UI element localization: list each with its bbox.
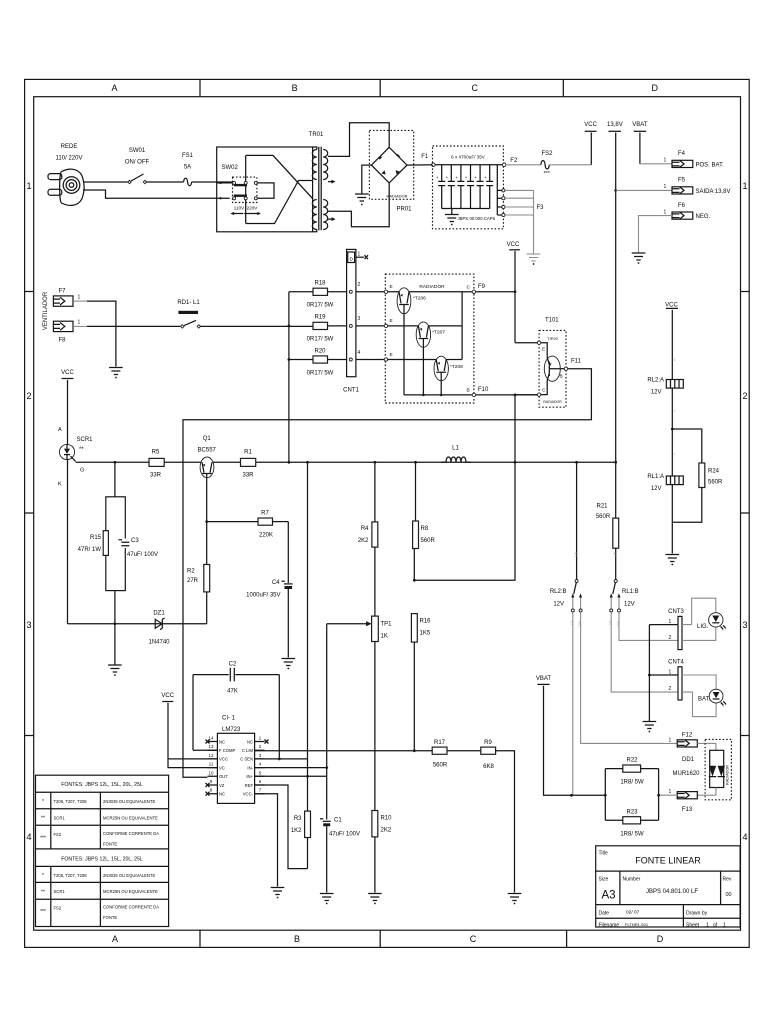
- capacitor bank C x6: [436, 165, 493, 209]
- svg-text:of: of: [713, 923, 718, 929]
- resistor R16 1K5: [411, 614, 417, 643]
- svg-text:1: 1: [78, 295, 81, 301]
- svg-text:FS2: FS2: [54, 906, 62, 911]
- svg-text:R5: R5: [152, 450, 160, 456]
- resistor R20 0R17/5W: [289, 359, 313, 361]
- transistor T208: [434, 356, 463, 395]
- svg-text:SW01: SW01: [129, 148, 146, 154]
- wire bridge left vertex to ground: [362, 165, 372, 194]
- svg-text:PR01: PR01: [396, 207, 412, 213]
- svg-text:NC: NC: [219, 792, 225, 797]
- svg-text:F10: F10: [478, 387, 489, 393]
- secondary tap arrows: [328, 182, 333, 220]
- svg-text:Title: Title: [599, 851, 608, 857]
- resistor R21 560R: [613, 518, 619, 548]
- terminal F12: [669, 733, 698, 748]
- svg-text:C4: C4: [272, 580, 280, 586]
- svg-text:BC557: BC557: [198, 448, 217, 454]
- capacitor bank box JBPS 00.000.CAP6: [433, 146, 504, 229]
- svg-text:1: 1: [674, 452, 676, 456]
- svg-text:RADIADOR: RADIADOR: [726, 765, 730, 785]
- svg-text:1: 1: [664, 210, 667, 216]
- svg-text:11: 11: [209, 762, 214, 767]
- row E3 to T208: [388, 359, 462, 361]
- wire secondary top to bridge: [328, 123, 389, 157]
- svg-text:560R: 560R: [433, 763, 448, 769]
- svg-text:1: 1: [723, 923, 726, 929]
- svg-text:1: 1: [669, 738, 672, 744]
- main rail through cap bank: [435, 164, 502, 166]
- LED LIG loop: [682, 598, 716, 640]
- ground VCC-: [271, 888, 285, 895]
- relay contacts RL1:B: [608, 580, 678, 693]
- svg-text:F7: F7: [58, 289, 66, 295]
- svg-text:SCR1: SCR1: [77, 437, 94, 443]
- svg-text:B: B: [467, 388, 470, 394]
- svg-text:K: K: [58, 482, 62, 488]
- svg-text:1: 1: [664, 158, 667, 164]
- svg-text:T101: T101: [545, 318, 559, 324]
- svg-text:47uF/ 100V: 47uF/ 100V: [127, 552, 158, 558]
- svg-text:+: +: [484, 175, 487, 180]
- svg-text:F6: F6: [678, 203, 686, 209]
- wire F2 to FS2: [506, 164, 541, 166]
- svg-text:TP1: TP1: [381, 622, 393, 628]
- power 13.8V: [609, 130, 621, 132]
- svg-text:*: *: [42, 799, 44, 805]
- svg-text:3: 3: [26, 620, 31, 630]
- capacitor C2 47K: [193, 662, 279, 760]
- svg-text:RL2:A: RL2:A: [647, 378, 664, 384]
- svg-text:T206, T207, T208: T206, T207, T208: [54, 799, 88, 804]
- border column ticks top: [200, 79, 563, 96]
- wire F12 to DD1: [697, 743, 716, 750]
- svg-text:2K2: 2K2: [381, 828, 392, 834]
- svg-text:D: D: [657, 934, 664, 944]
- node F1: [432, 163, 436, 167]
- svg-text:2N3035 OU EQUIVALENTE: 2N3035 OU EQUIVALENTE: [103, 873, 155, 878]
- svg-text:1R8/ 5W: 1R8/ 5W: [620, 832, 644, 838]
- svg-text:R8: R8: [421, 526, 429, 532]
- wire F6 to ground: [639, 216, 673, 253]
- svg-text:R21: R21: [596, 504, 608, 510]
- resistor R19 0R17/5W: [313, 322, 328, 329]
- ground CNT3/CNT4: [648, 625, 650, 722]
- wire RL1:A and R24 to ground: [672, 485, 702, 554]
- svg-text:RD1- L1: RD1- L1: [177, 300, 200, 306]
- svg-text:4: 4: [742, 832, 747, 842]
- svg-text:Size: Size: [599, 877, 609, 883]
- svg-text:Drawn by: Drawn by: [686, 911, 708, 917]
- SW02 outer box: [217, 147, 313, 232]
- resistor R7 220K: [207, 521, 258, 523]
- svg-text:12V: 12V: [651, 390, 662, 396]
- junction 13.8V/F5: [614, 189, 617, 192]
- node F3: [505, 190, 533, 253]
- resistor R17 560R: [432, 747, 447, 754]
- svg-text:VCC: VCC: [219, 757, 228, 762]
- svg-text:FONTES: JBPS 12L, 15L, 20L, 25: FONTES: JBPS 12L, 15L, 20L, 25L: [61, 782, 143, 788]
- svg-text:RL2:B: RL2:B: [550, 589, 567, 595]
- ground R15: [108, 665, 122, 672]
- svg-text:560R: 560R: [421, 538, 436, 544]
- svg-text:VBAT: VBAT: [536, 676, 552, 682]
- svg-text:DD1: DD1: [682, 757, 695, 763]
- svg-text:F1: F1: [421, 154, 429, 160]
- svg-text:1: 1: [706, 923, 709, 929]
- svg-text:FS2: FS2: [541, 151, 553, 157]
- terminal F6 NEG.: [664, 203, 711, 220]
- svg-text:CNT4: CNT4: [668, 660, 684, 666]
- svg-text:VCC-: VCC-: [243, 792, 254, 797]
- transformer TR01: [309, 132, 328, 232]
- svg-text:FS1: FS1: [182, 153, 194, 159]
- terminal F8: [53, 320, 80, 344]
- svg-text:RL1:B: RL1:B: [622, 589, 639, 595]
- transistor Q1 BC557: [198, 436, 217, 565]
- svg-text:1000uF/ 35V: 1000uF/ 35V: [246, 593, 280, 599]
- resistor R18 0R17/5W: [289, 291, 313, 293]
- ground RL1:A: [666, 555, 680, 562]
- relay coil RL2:A 12V: [647, 378, 683, 396]
- svg-text:MUR1620: MUR1620: [672, 771, 700, 777]
- svg-text:OUT: OUT: [219, 774, 228, 779]
- wire pin7 VCC- to ground: [255, 794, 278, 887]
- svg-text:E: E: [542, 347, 545, 353]
- svg-text:1: 1: [669, 789, 672, 795]
- svg-text:RADIADOR: RADIADOR: [543, 400, 562, 404]
- svg-text:VZ: VZ: [219, 783, 225, 788]
- svg-text:**: **: [79, 447, 84, 453]
- svg-text:33R: 33R: [150, 473, 162, 479]
- IC CI-1 LM723: [206, 716, 269, 804]
- svg-text:B: B: [292, 83, 298, 93]
- capacitor C4 1000uF/35V: [246, 522, 292, 658]
- frame inner border: [34, 97, 741, 931]
- LED BAT loop: [682, 675, 716, 717]
- svg-text:FLTNR1.S01: FLTNR1.S01: [625, 922, 649, 927]
- svg-text:R1: R1: [244, 450, 252, 456]
- svg-text:FONTE: FONTE: [103, 842, 117, 847]
- svg-text:VCC: VCC: [507, 242, 520, 248]
- svg-text:R17: R17: [434, 740, 446, 746]
- svg-text:1K2: 1K2: [291, 828, 302, 834]
- svg-text:SAIDA 13,8V: SAIDA 13,8V: [696, 189, 731, 195]
- svg-text:NF1: NF1: [612, 552, 616, 558]
- svg-text:L1: L1: [452, 446, 459, 452]
- zener DZ1 1N4740: [68, 611, 207, 646]
- row E1/collector bus top: [388, 292, 462, 360]
- svg-text:CONFORME CORRENTE DA: CONFORME CORRENTE DA: [103, 905, 159, 910]
- svg-text:MCR25N OU EQUIVALENTE: MCR25N OU EQUIVALENTE: [103, 816, 158, 821]
- svg-text:***: ***: [544, 171, 551, 177]
- svg-text:R20: R20: [314, 349, 326, 355]
- wire pin3 C SEN to rail: [255, 462, 308, 759]
- ground F7/F8: [109, 368, 123, 375]
- svg-text:2: 2: [742, 391, 747, 401]
- wire RL2:A to RL1:A with R24 branch: [671, 388, 673, 476]
- wire VCC to pin12/pin11: [168, 703, 217, 768]
- wire pin2 C LIM row to R17: [255, 750, 433, 752]
- svg-text:JBPS 04.801.00 LF: JBPS 04.801.00 LF: [646, 889, 698, 895]
- svg-text:VCC: VCC: [161, 693, 174, 699]
- svg-text:B: B: [294, 934, 300, 944]
- svg-text:4: 4: [26, 832, 31, 842]
- wire plug to SW01: [83, 181, 130, 183]
- wire R8 bottom loop to rail: [414, 462, 515, 580]
- SW02 voltage selector: [219, 155, 261, 223]
- svg-text:33R: 33R: [242, 473, 254, 479]
- wire F10 row to T101 collector: [516, 394, 537, 396]
- svg-text:Number: Number: [623, 877, 641, 883]
- svg-text:220V: 220V: [247, 206, 259, 211]
- svg-text:220K: 220K: [259, 533, 273, 539]
- svg-text:1: 1: [742, 181, 747, 191]
- svg-text:2N3035 OU EQUIVALENTE: 2N3035 OU EQUIVALENTE: [103, 799, 155, 804]
- svg-text:3: 3: [742, 620, 747, 630]
- svg-text:0R17/ 5W: 0R17/ 5W: [307, 371, 334, 377]
- terminal F4 POS. BAT.: [664, 151, 725, 169]
- svg-text:R3: R3: [294, 816, 302, 822]
- svg-text:D: D: [349, 256, 353, 262]
- svg-text:*T206: *T206: [413, 296, 426, 302]
- svg-text:A: A: [111, 83, 117, 93]
- svg-text:C1: C1: [334, 818, 342, 824]
- wire secondary bottom to bridge: [328, 183, 389, 227]
- wire bridge to F1: [407, 164, 433, 166]
- svg-text:6K8: 6K8: [483, 764, 494, 770]
- svg-text:1N4740: 1N4740: [148, 640, 170, 646]
- svg-text:*T207: *T207: [432, 330, 445, 336]
- svg-text:VENTILADOR: VENTILADOR: [43, 291, 49, 330]
- svg-text:2: 2: [669, 686, 672, 692]
- svg-text:4: 4: [358, 350, 361, 356]
- svg-text:R9: R9: [484, 740, 492, 746]
- wire F13 to R22/R23: [659, 794, 678, 796]
- title block: [596, 846, 740, 929]
- ground at bridge: [355, 194, 369, 201]
- resistor R10 2K2: [372, 811, 378, 837]
- wire plug lower to SW02: [83, 190, 230, 198]
- svg-text:F8: F8: [58, 338, 66, 344]
- svg-text:C: C: [471, 83, 478, 93]
- svg-text:5A: 5A: [184, 165, 191, 171]
- svg-text:12V: 12V: [651, 486, 662, 492]
- svg-text:FS2: FS2: [54, 832, 62, 837]
- svg-text:TIP29: TIP29: [547, 336, 557, 341]
- svg-text:47uF/ 100V: 47uF/ 100V: [329, 832, 360, 838]
- terminal F13: [669, 789, 698, 813]
- svg-text:A3: A3: [602, 890, 616, 902]
- svg-text:+: +: [446, 175, 449, 180]
- wire F10 node to rail: [514, 395, 516, 462]
- svg-text:2: 2: [674, 409, 676, 413]
- svg-text:FONTE LINEAR: FONTE LINEAR: [635, 856, 701, 866]
- svg-text:**: **: [41, 889, 45, 895]
- left bus of R18/R19/R20: [288, 292, 290, 463]
- svg-text:12V: 12V: [553, 602, 564, 608]
- svg-text:R23: R23: [626, 810, 638, 816]
- svg-text:F2: F2: [510, 158, 518, 164]
- svg-text:C: C: [470, 934, 477, 944]
- svg-text:12: 12: [209, 753, 214, 758]
- svg-text:***: ***: [40, 909, 46, 915]
- wire F7: [73, 300, 87, 302]
- svg-text:RADIADOR: RADIADOR: [386, 194, 407, 199]
- svg-text:C3: C3: [131, 538, 139, 544]
- switch SW01 ON/OFF: [125, 148, 150, 184]
- resistor R9 6K8: [481, 747, 496, 754]
- svg-text:F13: F13: [682, 807, 693, 813]
- svg-text:Q1: Q1: [203, 436, 212, 442]
- wire pin6 REF to R3 bottom: [255, 785, 308, 869]
- power VCC top: [585, 130, 597, 132]
- ground R9 branch: [508, 894, 522, 901]
- node F2: [502, 163, 506, 167]
- svg-text:2: 2: [669, 635, 672, 641]
- svg-text:VC: VC: [219, 765, 225, 770]
- diode pack DD1 MUR1620: [672, 739, 731, 799]
- svg-text:0R17/ 5W: 0R17/ 5W: [307, 337, 334, 343]
- svg-text:47K: 47K: [227, 689, 238, 695]
- resistor R5 33R: [149, 458, 164, 466]
- svg-text:F3: F3: [537, 205, 545, 211]
- ground R10: [368, 894, 382, 901]
- capacitor C1 47uF/100V: [320, 818, 360, 893]
- svg-text:3: 3: [358, 316, 361, 322]
- svg-text:F11: F11: [571, 359, 582, 365]
- SW02 strap wires to primary: [257, 183, 274, 198]
- svg-text:Sheet: Sheet: [686, 923, 700, 929]
- wire R15 box to DZ1 row and ground: [114, 591, 116, 666]
- svg-text:JBPS 00.000.CAP6: JBPS 00.000.CAP6: [458, 216, 496, 221]
- svg-text:T206, T207, T208: T206, T207, T208: [54, 873, 88, 878]
- FONTES table: [36, 775, 169, 926]
- relay coil RL1:A 12V: [647, 474, 683, 492]
- svg-text:Rev: Rev: [723, 877, 732, 883]
- svg-text:DZ1: DZ1: [153, 611, 165, 617]
- wire to F5: [616, 189, 672, 191]
- wire pin4 IN- to TP1 wiper and C1: [255, 624, 327, 820]
- svg-text:CNT3: CNT3: [668, 609, 684, 615]
- svg-text:VCC: VCC: [665, 303, 678, 309]
- svg-text:R16: R16: [420, 619, 432, 625]
- svg-text:12V: 12V: [624, 602, 635, 608]
- svg-text:02/ 07: 02/ 07: [626, 910, 640, 916]
- svg-text:CONFORME CORRENTE DA: CONFORME CORRENTE DA: [103, 831, 159, 836]
- transistor T206: [397, 288, 426, 395]
- svg-text:R7: R7: [261, 511, 269, 517]
- terminal F5 SAIDA 13,8V: [664, 178, 731, 196]
- wire pin5 IN+ to R3 top: [255, 775, 327, 777]
- svg-text:00: 00: [726, 892, 732, 898]
- svg-text:560R: 560R: [596, 514, 611, 520]
- capacitor C3 47uF/100V: [119, 538, 159, 558]
- fuse FS1 5A: [182, 153, 194, 186]
- svg-text:110/ 220V: 110/ 220V: [56, 156, 83, 162]
- connector CNT1: [343, 249, 368, 393]
- svg-text:REDE: REDE: [61, 144, 78, 150]
- bridge rectifier PR01: [369, 130, 413, 212]
- inductor L1: [441, 446, 471, 463]
- wire VCC to T101 emitter: [515, 342, 537, 344]
- svg-text:CI- 1: CI- 1: [222, 716, 236, 722]
- svg-text:+: +: [436, 175, 439, 180]
- svg-text:1: 1: [664, 184, 667, 190]
- svg-text:C SEN: C SEN: [240, 757, 253, 762]
- svg-text:110V: 110V: [234, 206, 245, 211]
- svg-text:2: 2: [358, 282, 361, 288]
- svg-text:B: B: [560, 374, 563, 380]
- svg-text:C: C: [467, 285, 471, 291]
- svg-text:E: E: [390, 318, 393, 324]
- fuse FS2: [541, 151, 553, 177]
- svg-text:REF: REF: [245, 783, 254, 788]
- svg-text:F4: F4: [678, 151, 686, 157]
- svg-text:560R: 560R: [708, 480, 723, 486]
- svg-text:2: 2: [26, 391, 31, 401]
- svg-text:1R8/ 5W: 1R8/ 5W: [620, 780, 644, 786]
- svg-text:NC: NC: [219, 739, 225, 744]
- svg-text:47R/ 1W: 47R/ 1W: [78, 547, 102, 553]
- svg-text:SW02: SW02: [222, 165, 239, 171]
- svg-text:IN+: IN+: [246, 774, 253, 779]
- svg-text:SCR1: SCR1: [54, 889, 66, 894]
- svg-text:R2: R2: [187, 569, 195, 575]
- SCR1: [58, 370, 93, 624]
- svg-text:G: G: [80, 468, 84, 474]
- svg-text:ON/ OFF: ON/ OFF: [125, 160, 150, 166]
- svg-text:Date: Date: [599, 911, 610, 917]
- radiador dotted box T206-T208: [385, 274, 474, 403]
- svg-text:10: 10: [209, 770, 214, 775]
- svg-text:5: 5: [674, 358, 676, 362]
- svg-text:2K2: 2K2: [358, 538, 369, 544]
- wire DD1 to F13: [697, 788, 716, 796]
- wire VBAT to F4: [639, 133, 641, 164]
- svg-text:SCR1: SCR1: [54, 816, 66, 821]
- svg-text:F12: F12: [682, 733, 693, 739]
- ground cap bank: [451, 209, 453, 215]
- power VBAT top: [634, 130, 646, 132]
- svg-text:0R17/ 5W: 0R17/ 5W: [307, 303, 334, 309]
- resistor R24 560R: [699, 463, 705, 488]
- svg-text:*T208: *T208: [450, 364, 463, 370]
- svg-text:MCR25N OU EQUIVALENTE: MCR25N OU EQUIVALENTE: [103, 889, 158, 894]
- wire SW01 to FS1: [146, 181, 184, 183]
- svg-text:*: *: [42, 873, 44, 879]
- resistor R4 2K2: [374, 462, 376, 522]
- svg-text:+: +: [465, 175, 468, 180]
- svg-text:NC: NC: [247, 739, 253, 744]
- svg-text:27R: 27R: [187, 578, 199, 584]
- svg-text:VCC: VCC: [584, 122, 597, 128]
- resistor R15 47R/1W with C3 box: [78, 462, 126, 590]
- wire RD1 to R19 bus: [200, 325, 313, 327]
- resistor R1 33R: [241, 458, 256, 466]
- svg-text:C LIM: C LIM: [242, 748, 254, 753]
- junction R4 R8: [374, 461, 377, 464]
- svg-text:R4: R4: [361, 526, 369, 532]
- svg-text:VBAT: VBAT: [632, 122, 648, 128]
- base bus F10 row: [404, 394, 472, 396]
- svg-text:Filename: Filename: [599, 923, 620, 929]
- svg-text:RADIADOR: RADIADOR: [419, 284, 445, 290]
- relay contacts RL2:B: [550, 462, 677, 795]
- terminal F7: [53, 289, 80, 307]
- wire FS1 to SW02 box: [192, 181, 233, 184]
- wires CNT1 to radiador box: [356, 292, 384, 360]
